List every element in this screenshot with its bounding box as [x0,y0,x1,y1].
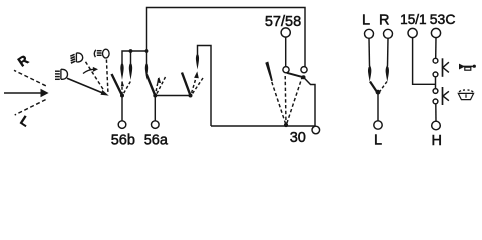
svg-text:H: H [431,133,441,149]
rotary dashed arm to right contact [286,76,302,125]
turn terminal stem [377,93,379,121]
svg-text:57/58: 57/58 [265,14,301,30]
icon parking light (fan position 3) [94,49,109,58]
rotary bridge bar [287,73,304,78]
terminal 53C circle [431,28,440,37]
junction dot bus x130.5 [129,49,133,53]
contact spear 56b left [130,51,132,63]
56a dashed position mid [155,78,159,96]
56a dashed position right [156,77,166,96]
terminal 15/1 circle [408,28,417,37]
turn pivot dot [376,90,381,95]
third contact feed wire [198,46,212,127]
icon high beam (fan position 1) [55,69,68,79]
terminal 57/58 circle [281,28,290,37]
rotary dashed arm to spear [272,82,286,125]
horn icon [459,64,476,71]
turn contact spear R [386,65,389,82]
bottom wire to 30 [211,77,315,126]
lever dashed line R [14,70,46,86]
horn contact upper circle [433,58,438,63]
flasher contact upper circle [433,89,438,94]
56b pivot dot [120,94,124,98]
turn switch lever solid [370,82,378,94]
svg-text:30: 30 [290,130,306,146]
horn contact actuator [443,62,449,72]
56b terminal stem [121,96,123,122]
lever arrowhead [41,89,49,97]
lever arrow shaft [4,92,42,94]
svg-text:56a: 56a [144,133,169,149]
56a arrowhead [157,77,161,83]
rotary fixed contact left [283,67,289,73]
rotary pivot dot [284,123,288,127]
svg-text:L: L [18,113,33,130]
56a terminal circle [152,121,160,129]
svg-text:R: R [379,12,389,28]
svg-text:56b: 56b [111,133,135,149]
terminal L bottom circle [374,121,382,129]
fan dashed radial to parking icon [106,60,108,93]
56b arrowhead [121,81,124,86]
svg-text:L: L [374,133,382,149]
rotary bridge junction dot [302,75,306,79]
rotary lever spear [265,62,273,82]
contact spear 56a fixed [146,51,148,63]
56a pivot dot [153,94,157,98]
third pivot dot [189,94,193,98]
rotary dashed arm to left contact [284,76,287,125]
horn contact bar [442,58,444,77]
third dashed position to spear [191,75,197,96]
terminal L circle [365,29,374,38]
terminal H circle [432,121,441,130]
53C stem [435,38,437,59]
turn switch dashed arm [378,82,387,94]
terminal 30 circle [312,126,320,134]
horn contact lower circle [433,72,438,77]
switch 56a lever [147,75,156,96]
third arrowhead [194,71,199,78]
icon low beam (fan position 2) [70,53,82,63]
fan rotation arrow [83,69,94,73]
56b terminal circle [118,121,126,129]
svg-text:R: R [15,52,32,70]
junction dot bus x146.5 [145,49,149,53]
R stem [387,38,390,66]
svg-text:15/1: 15/1 [400,12,426,27]
third dashed position right [191,78,203,96]
15/1 wire to column [413,38,436,85]
fan lever arrow (solid radial to pivot) [67,78,105,94]
svg-text:53C: 53C [430,11,456,27]
svg-text:L: L [362,12,370,28]
top wire of switch box [147,8,306,67]
switch 56b lever [112,74,123,96]
flasher column stem to H [435,104,437,121]
57/58 stem [285,37,287,66]
wire 56a pivot to third contact [155,95,190,97]
rotary fixed contact right [301,67,307,73]
lever dashed line L [15,100,46,115]
contact spear third [196,53,199,70]
56b dashed position left [121,82,123,96]
56b dashed position right [122,82,130,96]
bus wire above 56b/56a [122,51,147,63]
turn contact spear L [368,65,371,82]
flasher contact bar [442,87,444,105]
horn contact link stem [435,77,437,89]
terminal R circle [384,29,393,38]
contact spear 56b right [129,62,132,80]
third lever [182,73,191,96]
fan dashed radial to low-beam icon [86,62,105,91]
56a terminal stem [154,96,156,122]
flasher contact lower circle [433,99,438,104]
flasher icon [458,90,473,100]
L stem [368,38,371,66]
flasher contact actuator [443,91,449,100]
